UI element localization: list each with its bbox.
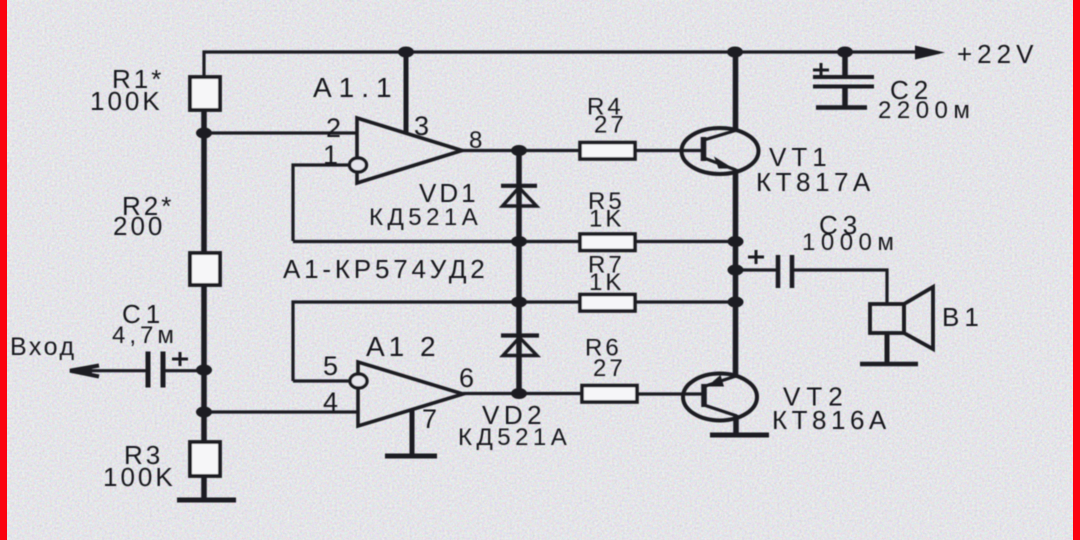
wire: VT2 collector down — [733, 415, 739, 435]
svg-text:+22V: +22V — [957, 39, 1038, 69]
pin 5 inverting input circle — [350, 374, 367, 388]
svg-text:3: 3 — [414, 111, 432, 141]
wire: A1.2 output to R6 — [463, 392, 582, 395]
diode VD2 triangle — [503, 338, 537, 356]
wire: pin3 power from rail — [404, 52, 409, 134]
wire: R2 bottom to C1 node — [201, 285, 207, 370]
wire: pin5 to feedback — [293, 379, 351, 382]
transistor VT2 body circle — [683, 374, 757, 421]
wire: column down to VT2 emitter — [733, 302, 739, 378]
node: C1 junction — [196, 365, 212, 376]
svg-text:100K: 100K — [103, 462, 176, 492]
svg-text:27: 27 — [593, 355, 626, 382]
svg-text:1000м: 1000м — [802, 229, 899, 256]
wire: VD1 column — [516, 151, 522, 303]
op-amp A1.2 triangle — [358, 362, 463, 426]
diode VD1 triangle — [503, 188, 537, 207]
svg-text:КТ816А: КТ816А — [772, 405, 891, 435]
capacitor C2 bottom plate — [813, 85, 874, 89]
capacitor C1 right plate — [161, 352, 166, 388]
ground under speaker — [860, 362, 918, 367]
plus sign C2 — [813, 69, 829, 72]
wire: VT1 collector to rail — [733, 52, 739, 131]
svg-text:2: 2 — [326, 113, 344, 143]
ground under C2 — [816, 105, 867, 110]
wire: R3 bottom lead — [201, 476, 207, 500]
op-amp A1.1 triangle — [357, 118, 462, 183]
svg-text:1K: 1K — [589, 269, 624, 296]
svg-text:4: 4 — [323, 387, 341, 417]
transistor VT2 collector diagonal (bottom) — [704, 405, 737, 416]
ground under VT2 — [710, 433, 769, 438]
transistor VT2 emitter diagonal (top) — [704, 376, 736, 387]
svg-text:А1-КР574УД2: А1-КР574УД2 — [283, 254, 489, 284]
wire: C1 to node — [163, 369, 204, 372]
transistor VT2 base bar — [701, 384, 707, 407]
node: column / R7 — [728, 297, 744, 308]
wire: C2 bottom stem — [842, 87, 848, 108]
wire: column R5 node to C3 node — [733, 242, 739, 271]
resistor R1 body — [190, 77, 220, 110]
wire: R4 to VT1 base — [635, 149, 702, 152]
diode VD1 cathode bar — [501, 184, 537, 188]
wire: R1 bottom to node — [201, 110, 207, 133]
wire: R6 to VT2 base — [637, 392, 702, 395]
svg-text:КТ817А: КТ817А — [756, 167, 875, 197]
plus sign C1 — [172, 358, 188, 361]
wire: left column node to R2 — [201, 133, 207, 253]
arrow: input arrowhead upper barb — [70, 366, 99, 377]
wire: C3 line from column — [736, 268, 779, 271]
capacitor C3 left plate — [776, 255, 781, 288]
wire: speaker bottom lead — [885, 333, 890, 364]
wire: pin1 to feedback — [293, 165, 350, 241]
speaker B1 horn — [904, 287, 933, 349]
ground under R3 — [177, 498, 236, 503]
svg-text:200: 200 — [113, 211, 165, 241]
ground at A1.2 pin7 — [385, 454, 437, 459]
transistor VT1 collector diagonal — [704, 130, 737, 140]
wire: A1.1 output to R4 — [462, 149, 580, 152]
node: rail junction at pin3 column — [398, 47, 414, 58]
node: pin4 junction — [196, 407, 212, 418]
wire: +22V top power rail — [204, 52, 918, 77]
transistor VT1 body circle — [682, 128, 759, 174]
svg-text:5: 5 — [323, 351, 341, 381]
svg-text:2200м: 2200м — [878, 97, 975, 124]
wire: R5 line left — [293, 240, 580, 243]
svg-text:27: 27 — [594, 112, 627, 139]
node: VD1 bottom / R5 line — [511, 236, 527, 247]
wire: C2 stem from rail — [842, 52, 848, 77]
wire: R7 line left / A1.2 feedback — [293, 302, 580, 381]
wire: R7 right to column — [635, 300, 736, 303]
svg-text:КД521А: КД521А — [458, 424, 571, 451]
svg-text:A1.1: A1.1 — [313, 72, 399, 103]
wire: C3 to speaker — [792, 270, 887, 304]
plus sign C3 — [748, 256, 764, 259]
resistor R2 body — [190, 253, 220, 285]
wire: C1 node down to pin4 node — [201, 370, 207, 412]
capacitor C3 right plate — [790, 255, 795, 288]
node: R7 line / feedback junction — [511, 297, 527, 308]
resistor R4 body — [580, 143, 635, 160]
transistor VT1 base bar — [701, 137, 707, 161]
wire: column C3 node to R7 node — [733, 270, 739, 302]
node: emitter column / R5 — [728, 236, 744, 247]
node: A1.2 output / VD2 bottom — [511, 388, 527, 399]
wire: input line — [70, 369, 148, 372]
resistor R3 body — [190, 442, 220, 476]
red border stripe left — [0, 0, 7, 540]
pin 1 inverting input circle — [350, 158, 367, 172]
arrow: +22V rail arrowhead — [915, 46, 945, 60]
resistor R5 body — [580, 234, 635, 251]
node: C3 junction — [728, 265, 744, 276]
arrow: VT2 emitter arrowhead — [707, 375, 724, 387]
capacitor C1 left plate — [146, 352, 151, 388]
wire: VD2 column — [516, 302, 522, 394]
wire: R5 right to VT1 emitter column — [635, 240, 736, 243]
svg-text:Вход: Вход — [10, 333, 77, 361]
svg-text:100K: 100K — [90, 86, 163, 116]
svg-text:6: 6 — [459, 363, 477, 393]
diode VD2 cathode bar — [501, 333, 539, 337]
node: R1/R2/pin2 junction — [196, 128, 212, 139]
speaker B1 box — [870, 304, 904, 333]
svg-text:4,7м: 4,7м — [112, 322, 178, 349]
wire: node to A1.2 pin4 — [204, 410, 358, 413]
capacitor C2 top plate — [813, 75, 874, 79]
svg-text:КД521А: КД521А — [369, 204, 482, 231]
wire: VT1 emitter column down — [733, 169, 739, 242]
transistor VT1 emitter diagonal — [704, 158, 736, 170]
wire: A1.2 pin7 ground stem — [410, 409, 415, 456]
node: A1.1 output / VD1 top — [511, 145, 527, 156]
arrow: VT1 emitter arrowhead — [714, 157, 734, 169]
wire: pin4 node down to R3 — [201, 412, 207, 442]
resistor R7 body — [580, 295, 635, 312]
node: rail junction at VT1 collector — [727, 47, 743, 58]
svg-text:7: 7 — [422, 404, 440, 434]
resistor R6 body — [582, 386, 637, 403]
red border stripe right — [1073, 0, 1080, 540]
svg-text:А1 2: А1 2 — [366, 331, 440, 362]
arrow: input arrowhead wedge — [70, 367, 92, 375]
svg-text:1K: 1K — [589, 206, 624, 233]
node: rail junction at C2 — [837, 47, 853, 58]
wire: node to A1.1 pin2 — [204, 131, 357, 134]
svg-text:B1: B1 — [942, 302, 984, 332]
